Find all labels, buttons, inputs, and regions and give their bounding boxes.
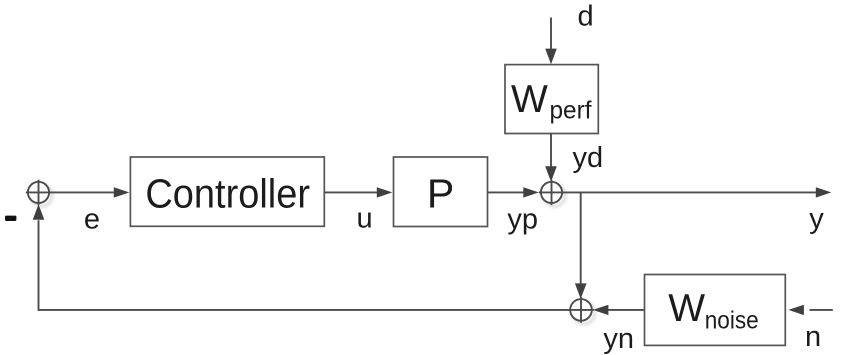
minus sign at S1	[5, 216, 16, 221]
wire e : S1 to Controller	[49, 191, 114, 193]
summing junction S2 shadow	[544, 185, 565, 206]
svg-text:yd: yd	[573, 142, 604, 174]
svg-text:n: n	[805, 321, 821, 353]
svg-text:u: u	[357, 202, 373, 234]
svg-text:P: P	[427, 171, 454, 217]
label W_noise	[668, 287, 759, 334]
wire branch down to S3	[580, 192, 582, 284]
wire y : S2 to output	[562, 191, 816, 193]
block P	[394, 157, 488, 227]
block W_noise	[645, 275, 786, 346]
wire u : Controller to P	[324, 191, 377, 193]
block Controller	[130, 157, 324, 226]
summing junction S1 shadow	[31, 185, 52, 206]
wire feedback : S3 to S1	[39, 220, 571, 310]
summing junction S2	[539, 180, 564, 205]
svg-text:perf: perf	[550, 97, 592, 125]
wire yp : P to S2	[488, 191, 525, 193]
svg-text:Controller: Controller	[145, 171, 310, 217]
wire d input	[550, 18, 552, 50]
summing junction S3	[568, 297, 594, 323]
wire n input	[810, 309, 833, 311]
svg-text:W: W	[668, 287, 705, 330]
summing junction S1	[26, 180, 51, 205]
summing junction S3 shadow	[573, 302, 595, 324]
svg-text:y: y	[809, 203, 824, 235]
wire yd	[550, 134, 552, 167]
label W_perf	[511, 78, 592, 124]
svg-text:d: d	[578, 1, 594, 33]
svg-text:yp: yp	[507, 204, 538, 236]
svg-text:yn: yn	[603, 323, 634, 355]
block W_perf	[505, 65, 598, 134]
svg-text:e: e	[84, 204, 100, 236]
svg-text:W: W	[511, 78, 548, 121]
wire W_noise to S3	[608, 309, 645, 311]
svg-text:noise: noise	[705, 307, 759, 335]
